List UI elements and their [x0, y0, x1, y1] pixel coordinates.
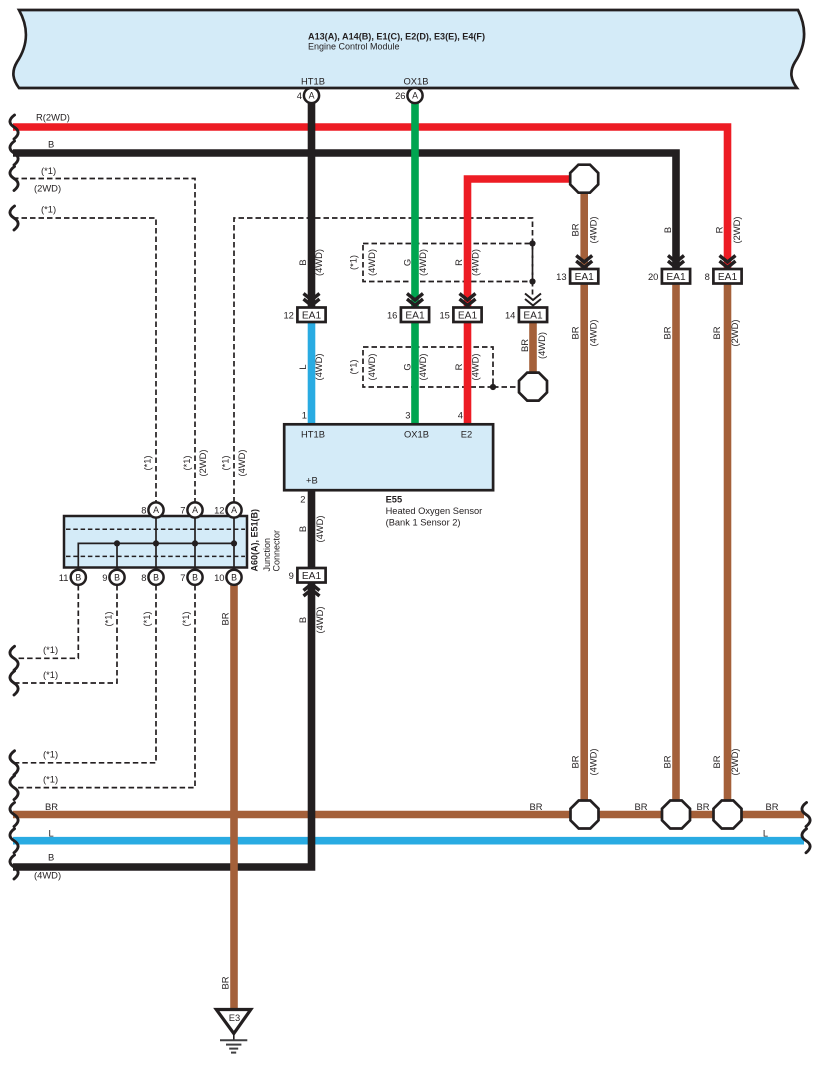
svg-text:(*1): (*1) [43, 749, 58, 760]
junction dot on dashed wire [529, 278, 535, 284]
svg-text:B: B [48, 139, 54, 150]
wire G green from connector 16 EA1 to E55 pin 3 [411, 321, 419, 430]
wire L blue bottom bus [13, 837, 804, 845]
wire L blue from connector 12 EA1 to E55 pin 1 [308, 321, 316, 430]
svg-text:4: 4 [458, 410, 463, 421]
junction pin 7 (A) [180, 502, 202, 517]
svg-text:EA1: EA1 [718, 272, 738, 283]
svg-text:11: 11 [59, 572, 69, 583]
svg-text:7: 7 [180, 505, 185, 516]
svg-text:13: 13 [556, 271, 566, 282]
svg-text:B: B [114, 573, 120, 583]
svg-text:B: B [297, 259, 308, 265]
connector 16 EA1 [387, 308, 429, 323]
svg-text:BR: BR [219, 612, 230, 625]
junction pin 8 (B) [141, 570, 163, 585]
svg-text:(*1): (*1) [41, 204, 56, 215]
arrow into 8 EA1 [720, 256, 736, 268]
break symbol (dash 7B left) [10, 776, 18, 800]
junction connector internal bus wiring [78, 516, 234, 568]
svg-text:A60(A), E51(B): A60(A), E51(B) [249, 509, 259, 572]
svg-text:EA1: EA1 [575, 272, 595, 283]
junction internal dot 12/10 [231, 540, 237, 546]
svg-text:R: R [453, 363, 464, 370]
svg-text:(4WD): (4WD) [366, 353, 377, 380]
wire R red from splice E10 to connector 15 EA1 [468, 179, 585, 307]
svg-text:(Bank 1 Sensor 2): (Bank 1 Sensor 2) [386, 518, 461, 528]
svg-text:EA1: EA1 [405, 311, 425, 322]
svg-text:Connector: Connector [271, 530, 281, 572]
E55 pin 3 OX1B [404, 410, 429, 440]
svg-text:B: B [192, 573, 198, 583]
splice octagon on BR bus 2 [662, 801, 690, 829]
svg-text:(2WD): (2WD) [197, 449, 208, 476]
svg-text:Heated Oxygen Sensor: Heated Oxygen Sensor [386, 506, 483, 516]
junction dot on dashed wire [529, 240, 535, 246]
svg-text:(4WD): (4WD) [314, 515, 325, 542]
svg-text:(2WD): (2WD) [731, 216, 742, 243]
arrow into 20 EA1 [668, 256, 684, 268]
svg-text:+B: +B [306, 475, 318, 486]
svg-text:BR: BR [569, 326, 580, 339]
svg-text:L: L [49, 827, 54, 838]
svg-text:(4WD): (4WD) [236, 449, 247, 476]
splice octagon on BR bus 1 [571, 801, 599, 829]
svg-text:A: A [309, 91, 315, 101]
break symbol (dash 2WD left) [10, 167, 18, 191]
svg-text:12: 12 [283, 310, 293, 321]
svg-text:(*1): (*1) [219, 455, 230, 470]
wire BR(4WD) brown from connector 13 EA1 to bottom splice [580, 283, 588, 801]
arrow into 16 EA1 [407, 294, 423, 306]
svg-text:16: 16 [387, 310, 397, 321]
dashed wire to splice octagon [493, 386, 528, 388]
wire B black from ECM row to connector 20 EA1 [13, 153, 676, 269]
wire B black from E55 pin 2 (+B) to connector 9 EA1 [308, 489, 316, 569]
svg-text:(*1): (*1) [347, 255, 358, 270]
svg-text:9: 9 [289, 570, 294, 581]
svg-text:BR: BR [711, 755, 722, 768]
svg-text:(4WD): (4WD) [313, 249, 324, 276]
junction pin 10 (B) [214, 570, 242, 585]
svg-text:9: 9 [102, 572, 107, 583]
splice octagon (red/brown) [570, 165, 598, 193]
wire B(4WD) black bottom bus to connector 9 EA1 [13, 582, 312, 867]
svg-text:B: B [231, 573, 237, 583]
svg-text:(*1): (*1) [141, 455, 152, 470]
svg-text:HT1B: HT1B [301, 76, 325, 87]
break symbol (BR bus left) [10, 803, 18, 827]
break symbol (dash 8B left) [10, 751, 18, 775]
svg-text:8: 8 [141, 505, 146, 516]
svg-text:EA1: EA1 [302, 311, 322, 322]
wire BR brown from connector 20 EA1 to bottom splice [672, 283, 680, 801]
svg-text:3: 3 [405, 410, 410, 421]
svg-text:BR: BR [569, 755, 580, 768]
svg-text:26: 26 [395, 90, 405, 101]
break symbol (dash 9B left) [10, 671, 18, 695]
junction connector internal dashed rails [66, 529, 245, 556]
svg-text:(4WD): (4WD) [469, 249, 480, 276]
svg-text:20: 20 [648, 271, 658, 282]
svg-text:B: B [48, 851, 54, 862]
svg-text:A: A [153, 505, 159, 515]
break symbol (R 2WD left) [10, 115, 18, 139]
junction internal dot 9 [114, 540, 120, 546]
junction dot on dashed wire [490, 384, 496, 390]
svg-text:EA1: EA1 [458, 311, 478, 322]
component E55 Heated Oxygen Sensor box [284, 424, 493, 490]
svg-text:BR: BR [661, 755, 672, 768]
svg-text:E2: E2 [461, 429, 472, 440]
break symbol (dash *1 left) [10, 206, 18, 230]
svg-text:8: 8 [141, 572, 146, 583]
svg-text:(4WD): (4WD) [314, 606, 325, 633]
svg-text:BR: BR [765, 801, 778, 812]
dashed wire (*1) junction pin 9B to left [13, 585, 117, 683]
junction pin 9 (B) [102, 570, 124, 585]
E55 pin 4 E2 [458, 410, 472, 440]
dashed option box (*1)(4WD) upper [363, 244, 533, 282]
connector 13 EA1 [556, 269, 598, 284]
svg-text:(*1): (*1) [41, 165, 56, 176]
wire R(2WD) red from ECM row to connector 8 EA1 [13, 127, 728, 269]
svg-text:E55: E55 [386, 495, 403, 505]
svg-text:2: 2 [300, 494, 305, 505]
svg-text:A: A [231, 505, 237, 515]
arrow into 13 EA1 [576, 256, 592, 268]
wire BR brown from junction pin 10B to ground E3 [230, 585, 238, 1008]
svg-text:B: B [662, 227, 673, 233]
svg-text:(*1): (*1) [102, 611, 113, 626]
svg-text:(2WD): (2WD) [729, 748, 740, 775]
junction pin 12 (A) [214, 502, 242, 517]
svg-text:EA1: EA1 [523, 311, 543, 322]
wire R red from connector 15 EA1 to E55 pin 4 [464, 321, 472, 430]
svg-text:(2WD): (2WD) [34, 183, 61, 194]
svg-text:(*1): (*1) [141, 611, 152, 626]
svg-text:(*1): (*1) [43, 644, 58, 655]
svg-text:L: L [763, 827, 768, 838]
svg-text:BR: BR [529, 801, 542, 812]
svg-text:(*1): (*1) [43, 773, 58, 784]
dashed wire (*1) junction pin 7B to left [13, 585, 195, 788]
ground E3 [216, 1010, 251, 1053]
svg-text:(4WD): (4WD) [366, 249, 377, 276]
connector 12 EA1 [283, 308, 325, 323]
junction pin 11 (B) [59, 570, 86, 585]
dashed wire (*1)(4WD) junction pin 12A to connector 14 EA1 [234, 218, 533, 503]
svg-text:(4WD): (4WD) [536, 332, 547, 359]
svg-text:BR: BR [696, 801, 709, 812]
svg-text:(4WD): (4WD) [417, 353, 428, 380]
svg-text:E3: E3 [229, 1012, 240, 1023]
ECM pin 26 (A) OX1B [395, 88, 423, 103]
svg-text:(*1): (*1) [43, 669, 58, 680]
svg-text:R: R [453, 259, 464, 266]
svg-text:BR: BR [661, 326, 672, 339]
arrow into 9 EA1 [304, 584, 320, 596]
dashed wire (*1) from left to junction pin 8A [13, 218, 156, 503]
arrow into 14 EA1 (dashed wire) [525, 294, 541, 306]
connector 20 EA1 [648, 269, 690, 284]
splice octagon on BR bus 3 [714, 801, 742, 829]
svg-text:(*1): (*1) [181, 455, 192, 470]
junction pin 8 (A) [141, 502, 163, 517]
junction internal dot 7 [192, 540, 198, 546]
svg-text:BR: BR [711, 326, 722, 339]
E55 pin 2 +B [300, 475, 317, 505]
svg-text:G: G [401, 259, 412, 266]
svg-text:8: 8 [705, 271, 710, 282]
connector 14 EA1 [505, 308, 547, 323]
break symbol (dash 11B left) [10, 646, 18, 670]
svg-text:A: A [412, 91, 418, 101]
break symbol (B bus left) [10, 855, 18, 879]
svg-text:(4WD): (4WD) [34, 870, 61, 881]
svg-text:L: L [297, 364, 308, 369]
svg-text:10: 10 [214, 572, 224, 583]
svg-text:B: B [297, 617, 308, 623]
wire BR(4WD) brown splice to connector 13 EA1 [580, 192, 588, 270]
arrow into 15 EA1 [460, 294, 476, 306]
svg-text:(2WD): (2WD) [729, 319, 740, 346]
svg-text:G: G [401, 363, 412, 370]
label A60(A), E51(B) Junction Connector [249, 509, 281, 572]
svg-text:12: 12 [214, 505, 224, 516]
break symbol (B left) [10, 141, 18, 165]
wire BR brown bottom bus [13, 811, 804, 819]
svg-text:A13(A), A14(B), E1(C), E2(D),: A13(A), A14(B), E1(C), E2(D), E3(E), E4(… [308, 32, 485, 42]
svg-text:BR: BR [569, 223, 580, 236]
component A60(A), E51(B) Junction Connector box [64, 516, 247, 568]
wire B black HT1B from ECM pin 4 to connector 12 EA1 [308, 103, 316, 307]
dashed wire (*1) junction pin 8B to left [13, 585, 156, 763]
svg-text:(*1): (*1) [347, 359, 358, 374]
svg-text:A: A [192, 505, 198, 515]
label E55 Heated Oxygen Sensor (Bank 1 Sensor 2) [386, 495, 483, 528]
splice octagon below 14 EA1 [519, 373, 547, 401]
svg-text:14: 14 [505, 310, 515, 321]
ECM pin 4 (A) HT1B [297, 88, 319, 103]
connector 15 EA1 [439, 308, 481, 323]
connector 8 EA1 [705, 269, 742, 284]
wire BR brown from connector 14 EA1 to splice octagon [529, 322, 537, 375]
svg-text:BR: BR [519, 339, 530, 352]
dashed option box (*1)(4WD) lower [363, 347, 493, 387]
svg-text:(4WD): (4WD) [313, 353, 324, 380]
svg-text:OX1B: OX1B [403, 76, 428, 87]
break symbol (BR bus right) [802, 803, 810, 827]
svg-text:Junction: Junction [262, 538, 272, 572]
dashed wire (*1) junction pin 11B to left [13, 585, 78, 658]
E55 pin 1 HT1B [301, 410, 325, 440]
svg-text:BR: BR [45, 801, 58, 812]
svg-text:1: 1 [302, 410, 307, 421]
svg-text:EA1: EA1 [666, 272, 686, 283]
junction pin 7 (B) [180, 570, 202, 585]
svg-text:4: 4 [297, 90, 302, 101]
svg-text:BR: BR [219, 976, 230, 989]
svg-text:B: B [297, 526, 308, 532]
svg-text:(4WD): (4WD) [587, 216, 598, 243]
arrow into 12 EA1 [304, 294, 320, 306]
break symbol (L bus right) [802, 829, 810, 853]
junction internal dot 8 [153, 540, 159, 546]
svg-text:B: B [153, 573, 159, 583]
svg-text:B: B [75, 573, 81, 583]
svg-text:(4WD): (4WD) [587, 748, 598, 775]
connector 9 EA1 [289, 568, 326, 583]
svg-text:HT1B: HT1B [301, 429, 325, 440]
svg-text:15: 15 [439, 310, 449, 321]
dashed wire (*1)(2WD) from left to junction pin 7A [13, 179, 195, 503]
wire G green OX1B from ECM pin 26 to connector 16 EA1 [411, 103, 419, 307]
svg-text:R: R [713, 226, 724, 233]
svg-text:7: 7 [180, 572, 185, 583]
wire BR(2WD) brown from connector 8 EA1 to bottom splice [724, 283, 732, 801]
svg-text:Engine Control Module: Engine Control Module [308, 42, 400, 52]
svg-text:BR: BR [634, 801, 647, 812]
svg-text:OX1B: OX1B [404, 429, 429, 440]
break symbol (L bus left) [10, 829, 18, 853]
ECM A13(A), A14(B), E1(C), E2(D), E3(E), E4(F) Engine Control Module [13, 10, 804, 88]
svg-text:(4WD): (4WD) [417, 249, 428, 276]
svg-text:R(2WD): R(2WD) [36, 112, 70, 123]
svg-text:(4WD): (4WD) [469, 353, 480, 380]
svg-text:(4WD): (4WD) [587, 319, 598, 346]
svg-text:EA1: EA1 [302, 571, 322, 582]
svg-text:(*1): (*1) [180, 611, 191, 626]
